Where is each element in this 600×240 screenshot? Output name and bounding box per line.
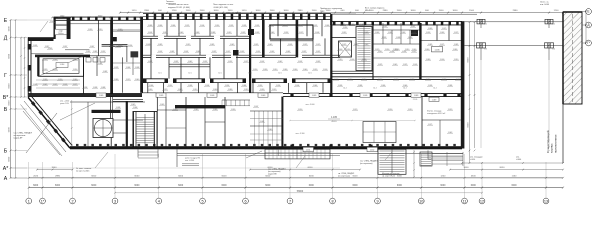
- svg-text:навес над входом: навес над входом: [226, 12, 242, 14]
- svg-text:1500: 1500: [397, 10, 403, 12]
- svg-text:3000: 3000: [214, 10, 220, 12]
- svg-text:Д: Д: [4, 35, 8, 41]
- svg-text:8050: 8050: [500, 167, 506, 169]
- svg-text:подвала 113.31 (-3.600): подвала 113.31 (-3.600): [168, 7, 190, 9]
- svg-text:3000: 3000: [284, 10, 290, 12]
- svg-text:1200: 1200: [172, 10, 178, 12]
- svg-text:6000: 6000: [353, 175, 359, 177]
- svg-text:6000: 6000: [8, 83, 10, 89]
- svg-text:12.5: 12.5: [308, 73, 311, 75]
- svg-text:11: 11: [463, 199, 467, 203]
- svg-text:1200: 1200: [440, 175, 446, 177]
- svg-text:14.2: 14.2: [343, 88, 346, 90]
- svg-text:отм. 0.000: отм. 0.000: [540, 4, 549, 6]
- svg-text:отм. -0.900: отм. -0.900: [185, 160, 194, 162]
- svg-text:уклон 10%: уклон 10%: [60, 103, 69, 105]
- svg-text:МВ-4: МВ-4: [365, 10, 370, 12]
- svg-text:6000: 6000: [91, 185, 97, 187]
- svg-text:6000: 6000: [309, 185, 315, 187]
- svg-text:1.009: 1.009: [363, 95, 368, 97]
- svg-text:6000: 6000: [134, 185, 140, 187]
- svg-text:2980: 2980: [55, 175, 61, 177]
- svg-text:отм. -3.300: отм. -3.300: [295, 133, 304, 135]
- svg-text:3: 3: [114, 199, 116, 203]
- svg-text:отм. -3.600: отм. -3.600: [305, 104, 314, 106]
- svg-text:6000: 6000: [134, 175, 140, 177]
- svg-text:1410: 1410: [132, 10, 138, 12]
- svg-text:-0.600: -0.600: [516, 159, 521, 161]
- svg-text:6000: 6000: [221, 185, 227, 187]
- svg-text:6000: 6000: [8, 156, 10, 162]
- svg-text:10: 10: [419, 199, 423, 203]
- svg-text:1.152: 1.152: [370, 150, 375, 152]
- svg-text:6000: 6000: [309, 175, 315, 177]
- svg-text:12.5: 12.5: [158, 73, 161, 75]
- svg-text:6000: 6000: [91, 175, 97, 177]
- svg-text:3000: 3000: [453, 10, 459, 12]
- svg-text:1500: 1500: [312, 10, 318, 12]
- svg-text:Е: Е: [4, 18, 8, 24]
- svg-text:6000: 6000: [308, 167, 314, 169]
- svg-text:12.5: 12.5: [188, 73, 191, 75]
- svg-text:1200: 1200: [554, 10, 560, 12]
- svg-text:См. СПЕЦ. РАЗДЕЛ: См. СПЕЦ. РАЗДЕЛ: [14, 132, 33, 135]
- svg-text:1.206: 1.206: [434, 50, 440, 52]
- svg-text:2980: 2980: [144, 10, 150, 12]
- svg-text:техподполья 455.9 м2: техподполья 455.9 м2: [427, 113, 445, 115]
- svg-text:1500: 1500: [326, 10, 332, 12]
- svg-text:1.039: 1.039: [159, 95, 164, 97]
- svg-text:ст.4: ст.4: [552, 49, 555, 51]
- svg-text:1.049: 1.049: [432, 99, 437, 101]
- svg-text:8: 8: [331, 199, 333, 203]
- svg-text:6000: 6000: [467, 57, 469, 63]
- svg-text:марки АР: марки АР: [14, 137, 23, 140]
- svg-text:4: 4: [158, 199, 160, 203]
- svg-text:см. черт. КЖ-12: см. черт. КЖ-12: [382, 176, 395, 178]
- svg-text:2.105: 2.105: [413, 99, 418, 101]
- svg-text:1500: 1500: [186, 10, 192, 12]
- svg-text:по черт. 12-345: по черт. 12-345: [76, 171, 89, 173]
- svg-text:14.2: 14.2: [373, 88, 376, 90]
- svg-text:7: 7: [289, 199, 291, 203]
- svg-text:3000: 3000: [411, 10, 417, 12]
- svg-text:14.2: 14.2: [433, 88, 436, 90]
- svg-text:1500: 1500: [439, 10, 445, 12]
- svg-text:4500: 4500: [471, 175, 477, 177]
- svg-text:1: 1: [28, 199, 30, 203]
- svg-text:6000: 6000: [8, 53, 10, 59]
- svg-text:-0.450: -0.450: [470, 159, 475, 161]
- svg-text:6000: 6000: [352, 185, 358, 187]
- svg-text:58000: 58000: [297, 191, 304, 193]
- svg-text:1.069: 1.069: [99, 95, 104, 97]
- svg-text:12: 12: [480, 199, 484, 203]
- svg-text:поликлиники: поликлиники: [553, 134, 557, 153]
- svg-text:6000: 6000: [222, 175, 228, 177]
- svg-text:1500: 1500: [200, 10, 206, 12]
- svg-text:6: 6: [244, 199, 246, 203]
- svg-text:6000: 6000: [8, 26, 10, 32]
- svg-text:2: 2: [71, 199, 73, 203]
- svg-text:6000: 6000: [8, 100, 10, 106]
- svg-text:1160: 1160: [512, 175, 517, 177]
- svg-text:6000: 6000: [8, 127, 10, 133]
- svg-text:ст.2: ст.2: [552, 24, 555, 26]
- svg-text:1.039: 1.039: [312, 95, 317, 97]
- svg-text:-3.600 (М 1:100): -3.600 (М 1:100): [213, 7, 228, 9]
- svg-text:6000: 6000: [467, 122, 469, 128]
- svg-text:1.069: 1.069: [261, 95, 266, 97]
- svg-text:6000: 6000: [55, 185, 61, 187]
- svg-text:1410: 1410: [242, 10, 248, 12]
- svg-text:1.069: 1.069: [414, 95, 419, 97]
- svg-text:6000: 6000: [265, 185, 271, 187]
- svg-text:1*: 1*: [41, 199, 45, 203]
- svg-text:6000: 6000: [178, 175, 184, 177]
- svg-text:1.105: 1.105: [331, 117, 337, 119]
- svg-text:12.5: 12.5: [278, 73, 281, 75]
- svg-text:(по чертежам): (по чертежам): [360, 163, 373, 165]
- svg-text:14.2: 14.2: [403, 88, 406, 90]
- svg-text:6000: 6000: [440, 185, 446, 187]
- svg-text:ст.1: ст.1: [484, 24, 487, 26]
- svg-text:3000: 3000: [256, 10, 262, 12]
- svg-text:В*: В*: [3, 95, 8, 101]
- svg-text:2980: 2980: [513, 10, 519, 12]
- svg-text:6000: 6000: [178, 185, 184, 187]
- svg-text:2980: 2980: [298, 10, 304, 12]
- svg-text:2980: 2980: [383, 10, 389, 12]
- svg-text:6000: 6000: [265, 175, 271, 177]
- svg-text:455.9: 455.9: [331, 121, 337, 123]
- svg-text:1.151: 1.151: [306, 150, 311, 152]
- svg-text:В: В: [4, 107, 8, 113]
- svg-text:ст.3: ст.3: [484, 49, 487, 51]
- svg-text:Б: Б: [4, 148, 8, 154]
- svg-text:6000: 6000: [471, 185, 477, 187]
- svg-text:6000: 6000: [397, 185, 403, 187]
- svg-text:1000кг: 1000кг: [58, 33, 64, 35]
- svg-text:воды: воды: [320, 11, 325, 13]
- svg-text:12.5: 12.5: [218, 73, 221, 75]
- svg-text:Е: Е: [587, 10, 589, 14]
- svg-text:А: А: [4, 176, 8, 182]
- svg-text:марки КЖ: марки КЖ: [268, 173, 277, 175]
- svg-text:12.5: 12.5: [248, 73, 251, 75]
- svg-text:5: 5: [201, 199, 203, 203]
- svg-text:2020: 2020: [33, 175, 39, 177]
- svg-text:(по чертежам): (по чертежам): [338, 176, 350, 178]
- svg-text:1500: 1500: [270, 10, 276, 12]
- svg-text:5000: 5000: [464, 167, 470, 169]
- svg-text:Г: Г: [4, 73, 7, 79]
- svg-text:1.014: 1.014: [60, 64, 65, 66]
- svg-text:13: 13: [544, 199, 548, 203]
- svg-text:А*: А*: [3, 166, 8, 172]
- svg-text:1500: 1500: [469, 10, 475, 12]
- svg-text:9: 9: [376, 199, 378, 203]
- svg-text:3540: 3540: [52, 167, 58, 169]
- svg-text:3000: 3000: [397, 175, 403, 177]
- svg-text:6000: 6000: [511, 185, 517, 187]
- svg-text:1.009: 1.009: [210, 95, 215, 97]
- svg-text:6000: 6000: [33, 185, 39, 187]
